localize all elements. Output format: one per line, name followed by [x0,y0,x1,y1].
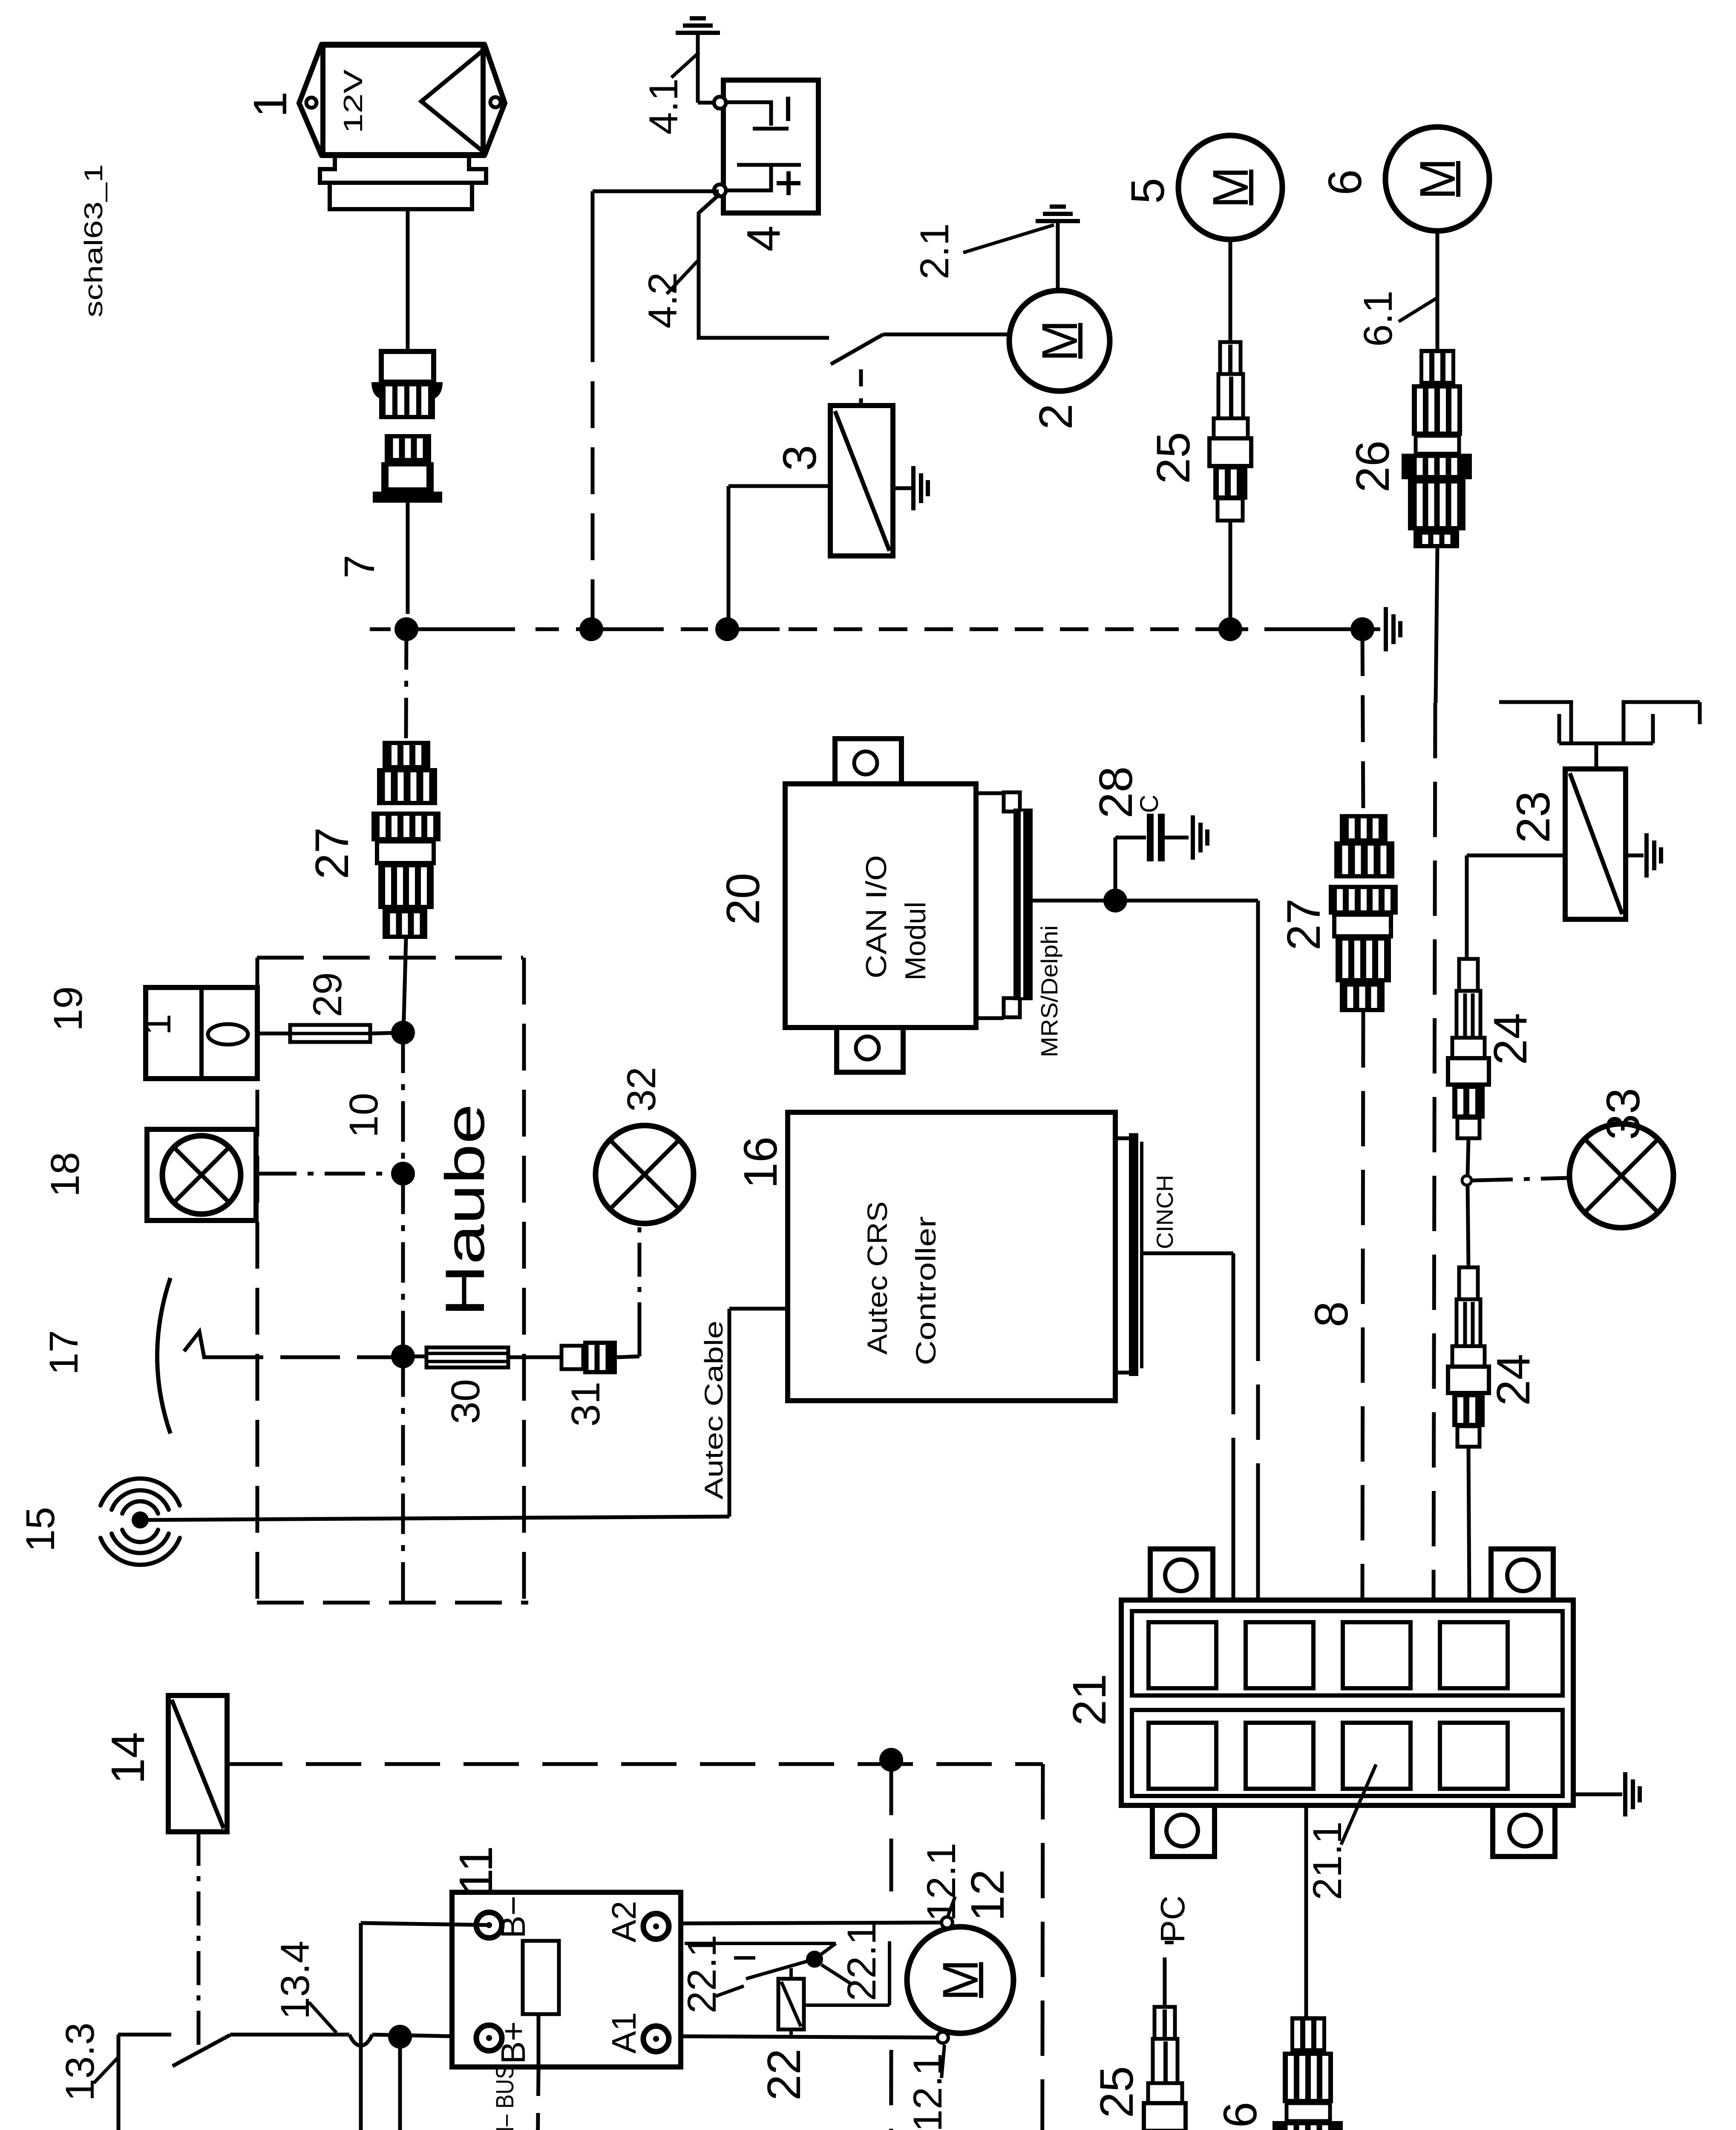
svg-text:C: C [1135,794,1163,813]
svg-text:12: 12 [962,1869,1014,1921]
svg-text:A1: A1 [605,2012,643,2054]
svg-text:1: 1 [244,91,297,117]
svg-text:CINCH: CINCH [1152,1175,1178,1249]
svg-text:15: 15 [18,1507,63,1552]
svg-text:2.1: 2.1 [912,223,957,279]
svg-text:29: 29 [305,972,350,1017]
svg-text:B+: B+ [494,2021,532,2064]
svg-text:27: 27 [306,827,358,879]
svg-text:B−: B− [494,1896,532,1938]
svg-text:5: 5 [1122,178,1174,204]
svg-text:8: 8 [1305,1301,1358,1327]
svg-text:26: 26 [1347,440,1399,492]
svg-text:20: 20 [717,873,769,925]
svg-text:Controller: Controller [910,1216,941,1365]
svg-text:Modul: Modul [899,901,932,980]
svg-text:24: 24 [1484,1013,1537,1065]
svg-text:14: 14 [102,1732,154,1784]
svg-text:Autec Cable: Autec Cable [700,1321,728,1500]
svg-text:27: 27 [1278,898,1330,950]
svg-text:25: 25 [1147,432,1200,484]
svg-text:23: 23 [1507,791,1560,843]
svg-text:22.1: 22.1 [679,1935,725,2014]
svg-text:11: 11 [450,1846,502,1894]
svg-text:13.4: 13.4 [273,1941,318,2020]
svg-text:24: 24 [1487,1354,1540,1406]
svg-text:32: 32 [619,1067,664,1112]
svg-text:Haube: Haube [434,1104,496,1317]
svg-text:22.1: 22.1 [839,1923,884,2001]
svg-text:PC: PC [1154,1895,1192,1943]
svg-text:7: 7 [336,555,383,579]
svg-text:21.1: 21.1 [1305,1822,1350,1900]
svg-text:2: 2 [1030,403,1082,429]
svg-text:13.3: 13.3 [58,2023,103,2101]
svg-text:MRS/Delphi: MRS/Delphi [1036,925,1062,1057]
svg-text:Autec CRS: Autec CRS [861,1201,893,1355]
svg-text:22: 22 [758,2049,810,2101]
svg-text:19: 19 [46,986,91,1031]
svg-text:3: 3 [774,445,826,471]
svg-text:4: 4 [737,225,790,251]
svg-text:CAN– BUS: CAN– BUS [491,2065,519,2130]
svg-text:31: 31 [563,1382,608,1427]
svg-text:33: 33 [1597,1088,1650,1140]
svg-text:30: 30 [443,1379,488,1424]
svg-text:10: 10 [341,1093,386,1138]
svg-text:25: 25 [1091,2066,1143,2118]
svg-text:17: 17 [41,1330,86,1375]
svg-text:26: 26 [1214,2102,1267,2130]
svg-text:4.2: 4.2 [640,272,685,328]
svg-text:16: 16 [734,1137,787,1189]
svg-text:28: 28 [1090,766,1142,818]
svg-text:21: 21 [1063,1674,1116,1726]
svg-text:schal63_1: schal63_1 [79,164,108,317]
svg-text:A2: A2 [605,1901,643,1943]
svg-text:6.1: 6.1 [1356,291,1401,347]
svg-text:6: 6 [1319,169,1371,195]
svg-text:18: 18 [43,1152,88,1197]
svg-text:CAN I/O: CAN I/O [860,855,892,979]
svg-text:12V: 12V [339,69,368,133]
svg-text:4.1: 4.1 [641,78,686,135]
svg-text:1: 1 [136,1014,179,1035]
svg-text:12.1: 12.1 [919,1843,964,1922]
